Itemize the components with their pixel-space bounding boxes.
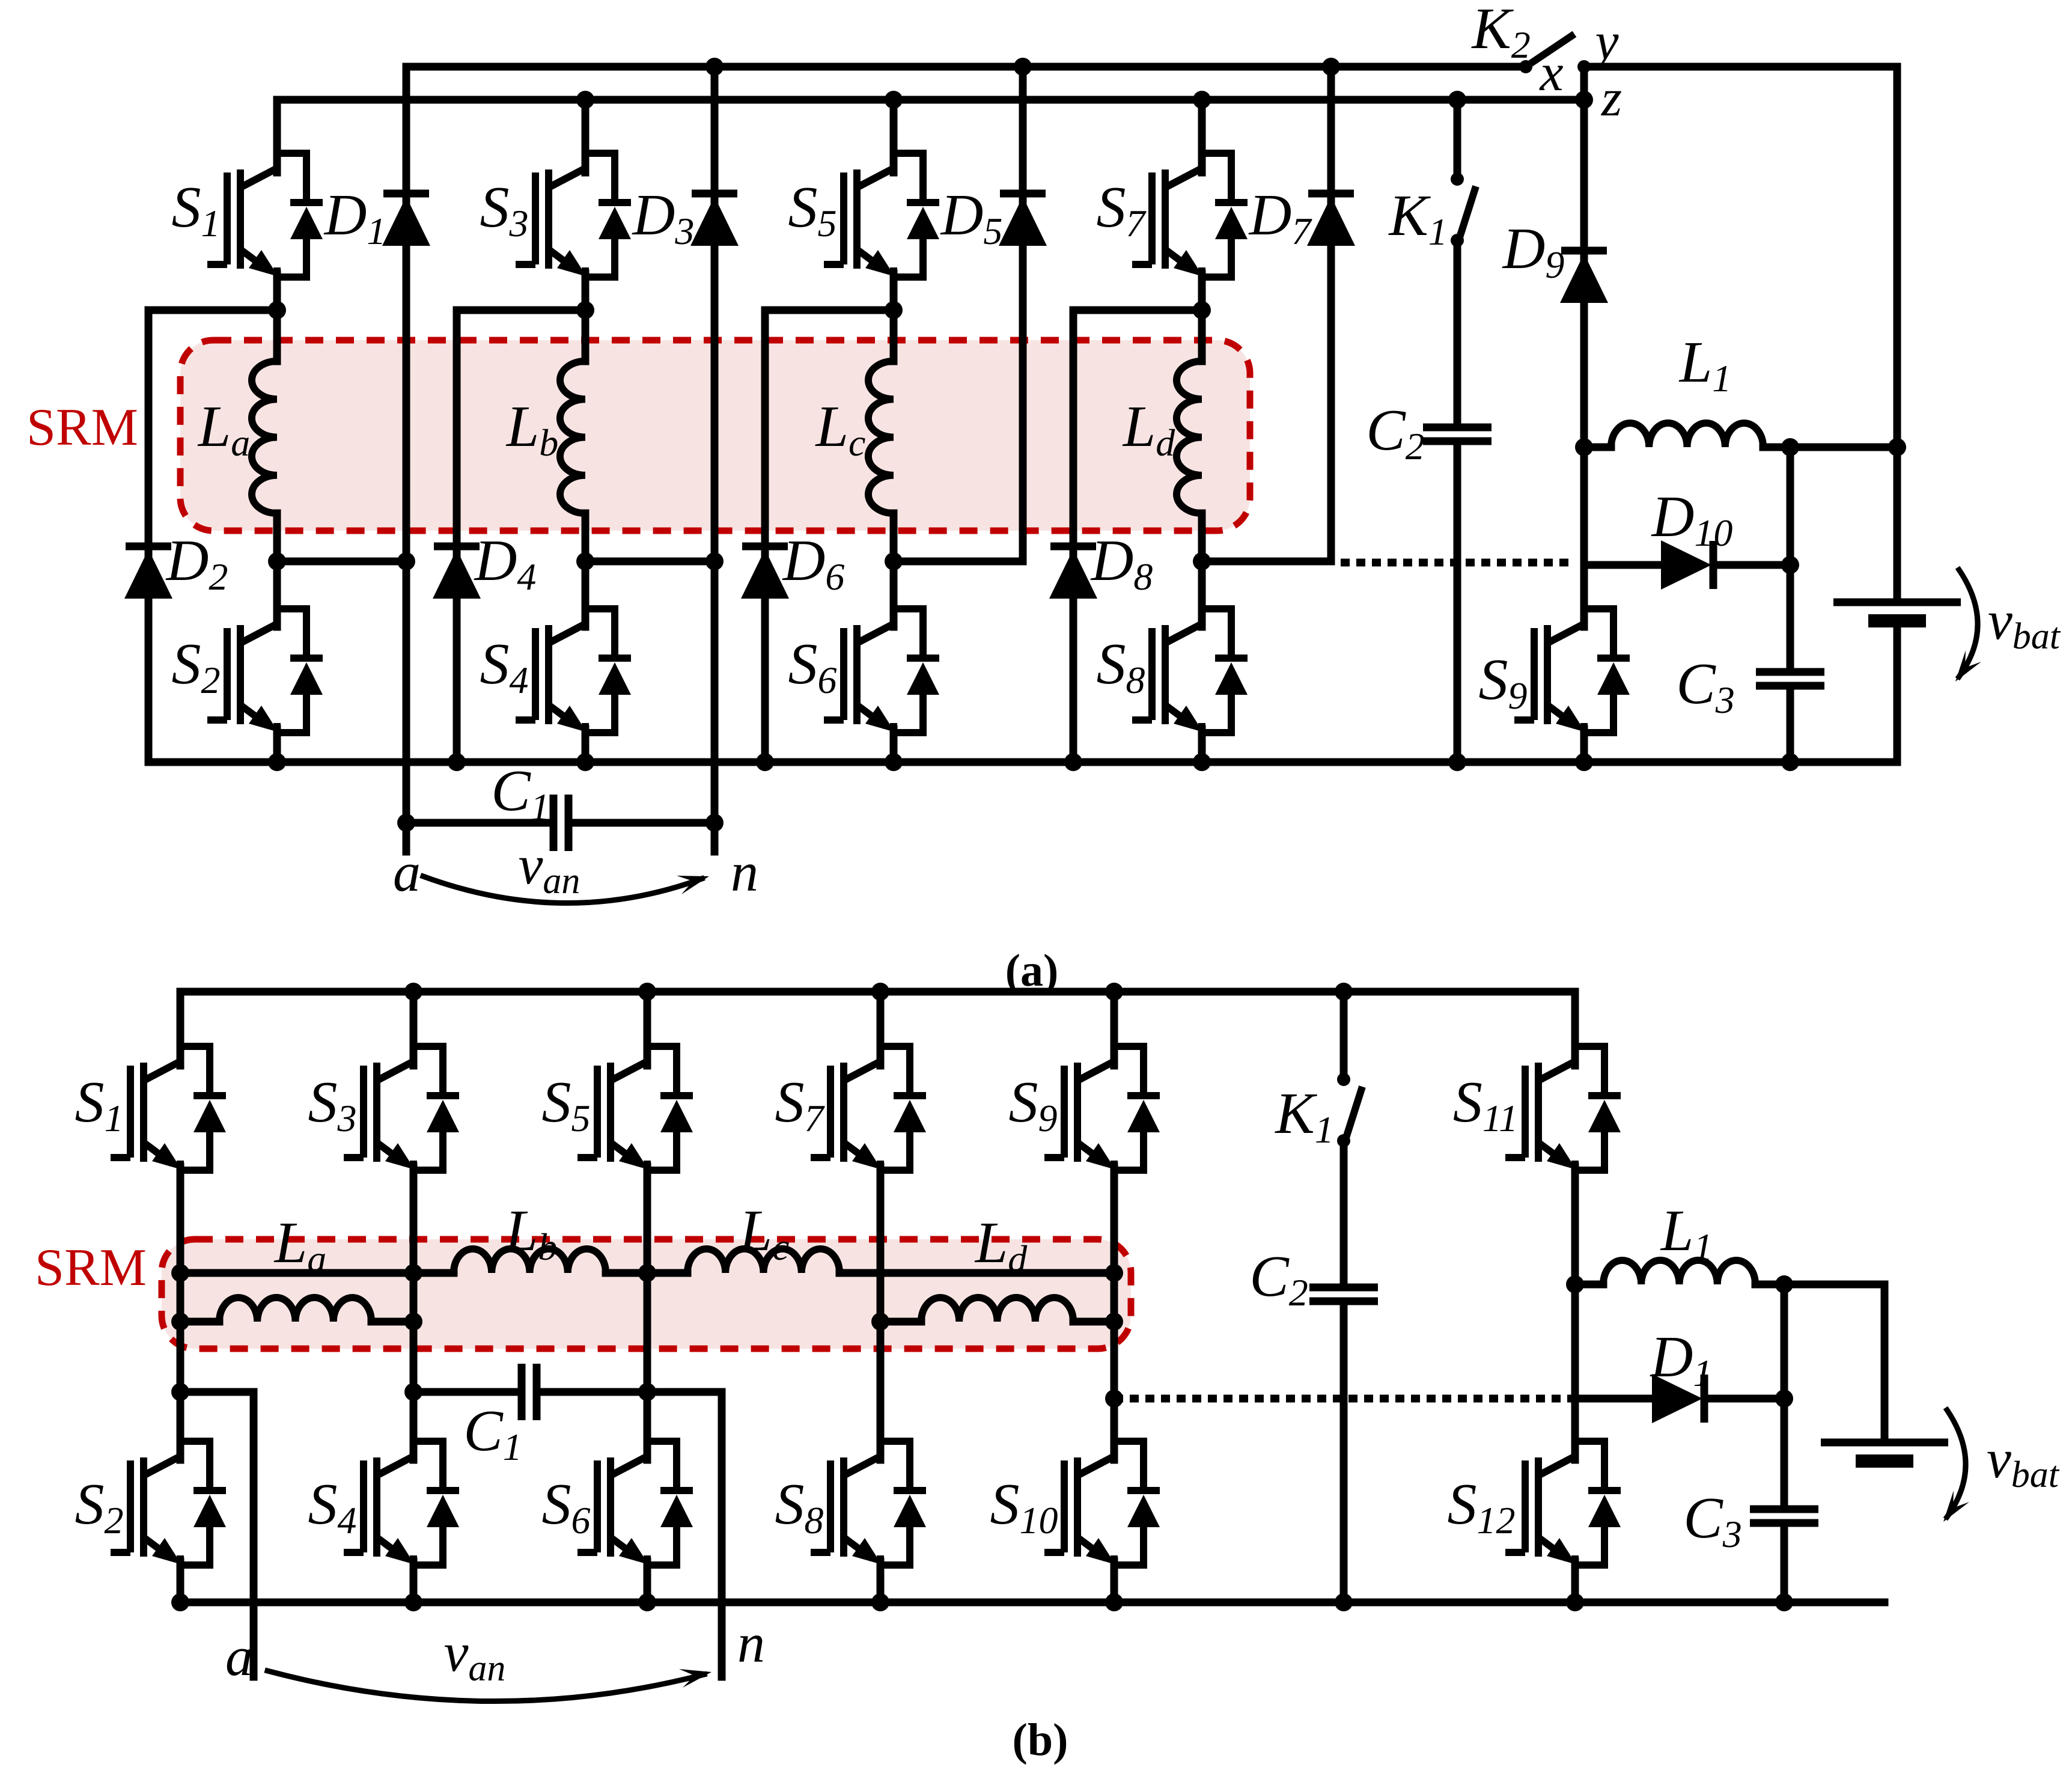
SRM machine dashed box (b) [162,1239,1131,1349]
junction leg on top rail (b) [638,983,656,1001]
SRM machine dashed box (a) [180,340,1250,531]
junction S6 emitter on bottom rail (b) [638,1593,656,1611]
wire node B to diode column phase d (a) [1202,558,1331,566]
junction diode column on outer rail (a) [705,58,724,76]
diode D7 (a) [1307,194,1355,246]
junction S8 emitter on bottom rail (b) [871,1593,889,1611]
transistor S5 IGBT (b) [577,1045,693,1172]
wire inner rail to K1 (a) [1454,100,1461,179]
inductor Lc winding (b) [687,1249,839,1273]
wire S4 emitter to bottom rail (a) [582,729,590,762]
junction S9 emitter on bottom rail (a) [1575,753,1593,771]
junction K1 column on inner rail (a) [1448,91,1466,109]
transistor S7 IGBT (b) [811,1045,926,1172]
node A junction phase b (a) [576,301,594,319]
node A junction phase d (a) [1193,301,1211,319]
junction diode column on outer rail (a) [1322,58,1340,76]
transistor S12 IGBT (b) [1505,1439,1621,1567]
wire S1 collector from top rail (b) [177,992,184,1066]
svg-text:(b): (b) [1013,1715,1068,1765]
wire K1 to C2 (a) [1454,240,1461,427]
wire phase a leg emitter to inductor (a) [273,273,281,361]
battery v_bat (a) [1833,602,1961,621]
inductor L1 (a) [1611,423,1763,447]
junction left branch on bottom rail phase d (a) [1064,753,1082,771]
wire inductor bottom to node B phase c (a) [890,513,898,627]
v_bat arrow arc (a) [1959,570,1978,677]
inductor La winding (a) [252,361,277,513]
wire inductor bottom to node B phase a (a) [273,513,281,627]
transistor S3 IGBT (b) [344,1045,459,1172]
wire D3 column down to node n (a) [711,67,719,852]
wire S11 collector from top rail (b) [1571,992,1579,1066]
wire node a to C1 (a) [406,819,553,827]
wire top rail to K1 (b) [1340,992,1348,1079]
node B junction phase c (a) [885,552,903,570]
wire S2 emitter to bottom rail (b) [177,1561,184,1602]
inductor Lb winding (b) [454,1249,606,1273]
diode D5 (a) [999,194,1047,246]
wire C3 column (b) [1781,1284,1788,1509]
wire outer top rail left section (a) [406,63,1526,71]
wire S3 collector from top rail (b) [410,992,418,1066]
node B junction phase a (a) [268,552,286,570]
capacitor C1 (b) [522,1364,537,1420]
switch K1 (b) [1337,1073,1362,1147]
node A junction phase a (a) [268,301,286,319]
junction C3 on bottom rail (b) [1775,1593,1793,1611]
wire phase c leg emitter to inductor (a) [890,273,898,361]
junction bottom bus at S7 leg (b) [871,1313,889,1331]
dashed wire S9 leg to S12 collector (b) [1114,1395,1571,1403]
wire D1 column down to node a (a) [403,67,410,852]
wire phase c leg collector (a) [890,100,898,172]
junction left branch on bottom rail phase b (a) [448,753,466,771]
wire K1 to C2 (b) [1340,1141,1348,1287]
junction S4 emitter on bottom rail (a) [576,753,594,771]
transistor S6 IGBT (b) [577,1439,693,1567]
junction bottom bus at S3 leg (b) [404,1313,422,1331]
wire S9 emitter through windings rows (b) [1111,1167,1118,1460]
switch K1 (a) [1451,172,1476,247]
junction S2 emitter on bottom rail (a) [268,753,286,771]
junction leg on top rail (b) [404,983,422,1001]
wire node B to diode column phase a (a) [277,558,406,566]
wire S4 emitter to bottom rail (b) [410,1561,418,1602]
v_an arrowhead (b) [679,1669,711,1688]
wire Ld coil to S9 leg (b) [1073,1318,1114,1326]
wire node A to left branch phase c (a) [765,307,894,314]
wire bottom rail (b) [180,1599,1885,1607]
junction D10 at C3 column (a) [1781,556,1799,574]
v_an arrowhead (a) [677,876,709,894]
wire C3 to bottom rail (b) [1781,1523,1788,1602]
junction L1 at right edge (a) [1888,438,1906,456]
wire phase d leg emitter to inductor (a) [1198,273,1206,361]
diode D3 (a) [690,194,739,246]
wire S7 emitter through windings rows (b) [877,1167,885,1460]
v_bat arrowhead (b) [1943,1491,1969,1522]
junction L1 tap on D9 column (a) [1575,438,1593,456]
junction S4 emitter on bottom rail (b) [404,1593,422,1611]
junction D1 at C3 column (b) [1775,1390,1793,1408]
junction diode column at node B row phase b (a) [705,552,724,570]
transistor S9 IGBT (a) [1514,607,1630,734]
transistor S1 IGBT (a) [207,151,323,279]
diode D8 (a) [1049,546,1097,599]
junction L1 at C3 column (a) [1781,438,1799,456]
junction S2 emitter on bottom rail (b) [171,1593,189,1611]
node B junction phase d (a) [1193,552,1211,570]
transistor S3 IGBT (a) [516,151,631,279]
junction dashed wire at S9 leg (b) [1105,1390,1123,1408]
node B junction phase b (a) [576,552,594,570]
wire node A to left branch phase a (a) [148,307,277,314]
wire top rail (b) [180,988,1575,996]
wire S2 emitter to bottom rail (a) [273,729,281,762]
svg-text:n: n [737,1613,765,1674]
wire S8 emitter to bottom rail (a) [1198,729,1206,762]
wire S6 emitter to bottom rail (b) [644,1561,651,1602]
wire v_an arc arrow (b) [267,1671,704,1701]
wire L1 right lead to right edge (b) [1755,1284,1885,1442]
junction leg on top rail (b) [1105,983,1123,1001]
wire L1 left lead (a) [1584,444,1611,451]
wire phase b leg emitter to inductor (a) [582,273,590,361]
node z junction (a) [1575,91,1593,109]
wire left branch with D6 phase c (a) [761,310,769,762]
junction leg on top rail (b) [871,983,889,1001]
wire winding top bus right (b) [839,1269,1114,1277]
wire S9 emitter to bottom rail (a) [1580,729,1588,762]
junction bottom bus at S9 leg (b) [1105,1313,1123,1331]
wire inductor bottom to node B phase d (a) [1198,513,1206,627]
capacitor C2 (a) [1423,427,1492,441]
junction L1 at C3 column (b) [1775,1275,1793,1293]
v_bat arrowhead (a) [1955,650,1981,682]
battery v_bat (b) [1821,1442,1948,1461]
wire L1 left lead (b) [1575,1281,1603,1289]
junction on winding top bus (b) [638,1264,656,1282]
junction C2 column on bottom rail (a) [1448,753,1466,771]
wire left branch with D8 phase d (a) [1070,310,1077,762]
inductor Lc winding (a) [868,361,894,513]
junction diode column at node B row phase a (a) [397,552,415,570]
transistor S2 IGBT (a) [207,607,323,734]
wire S9 collector from top rail (b) [1111,992,1118,1066]
diode D1 (b) [1652,1374,1704,1423]
wire winding top bus left (b) [180,1269,454,1277]
wire phase a leg collector (a) [273,100,281,172]
svg-text:n: n [731,841,758,903]
wire S3 emitter through windings rows (b) [410,1167,418,1460]
wire D5 column (a) [1019,67,1027,561]
wire inductor bottom to node B phase b (a) [582,513,590,627]
wire node a branch (b) [180,1388,254,1396]
junction C3 on bottom rail (a) [1781,753,1799,771]
transistor S6 IGBT (a) [824,607,939,734]
junction C1 wire at S3 leg (b) [404,1383,422,1401]
transistor S9 IGBT (b) [1044,1045,1160,1172]
wire S9 collector node to D10 (a) [1584,561,1662,569]
transistor S4 IGBT (b) [344,1439,459,1567]
wire S10 emitter to bottom rail (b) [1111,1561,1118,1602]
wire D1 cathode to C3 column (b) [1705,1395,1784,1403]
junction on winding top bus (b) [1105,1264,1123,1282]
transistor S4 IGBT (a) [516,607,631,734]
wire z to D9 to S9 collector (a) [1580,100,1588,627]
junction leg on inner rail (a) [576,91,594,109]
wire C2 to bottom rail (a) [1454,441,1461,762]
wire C3 column (a) [1787,447,1794,672]
junction C2 column on bottom rail (b) [1335,1593,1353,1611]
transistor S10 IGBT (b) [1044,1439,1160,1567]
capacitor C1 (a) [553,795,568,851]
junction S6 emitter on bottom rail (a) [885,753,903,771]
capacitor C2 (b) [1309,1287,1378,1301]
wire left branch with D4 phase b (a) [453,310,461,762]
wire S1 emitter through windings rows (b) [177,1167,184,1460]
wire S6 emitter to bottom rail (a) [890,729,898,762]
wire S12 collector node to D1 (b) [1575,1395,1653,1403]
inductor Ld winding (b) [921,1298,1073,1322]
junction leg on inner rail (a) [885,91,903,109]
svg-text:a: a [393,841,421,903]
wire D7 column (a) [1327,67,1335,561]
junction bottom bus at S1 leg (b) [171,1313,189,1331]
wire z-node drop from K2 (a) [1580,67,1588,100]
junction S10 emitter on bottom rail (b) [1105,1593,1123,1611]
junction leg on inner rail (a) [1193,91,1211,109]
inductor Ld winding (a) [1177,361,1202,513]
wire node B to diode column phase c (a) [894,558,1023,566]
wire node A to left branch phase b (a) [457,307,585,314]
junction S8 emitter on bottom rail (a) [1193,753,1211,771]
wire v_an arc arrow (a) [423,876,702,903]
capacitor C3 (b) [1750,1509,1818,1523]
diode D6 (a) [741,546,789,599]
K2 left contact (a) [1519,60,1532,73]
wire node B to diode column phase b (a) [585,558,715,566]
diode D2 (a) [124,546,172,599]
svg-text:SRM: SRM [35,1239,147,1297]
svg-text:z: z [1601,69,1622,127]
inductor Lb winding (a) [560,361,585,513]
inductor L1 (b) [1603,1260,1755,1284]
junction on winding top bus (b) [171,1264,189,1282]
dashed wire node B row to S9 (a) [1341,559,1571,567]
transistor S1 IGBT (b) [111,1045,226,1172]
wire S7 collector from top rail (b) [877,992,885,1066]
diode D10 (a) [1661,540,1713,590]
wire S8 emitter to bottom rail (b) [877,1561,885,1602]
wire C2 to bottom rail (b) [1340,1301,1348,1602]
svg-text:a: a [225,1626,253,1687]
diode D1 (a) [382,194,430,246]
junction node a wire at S1 leg (b) [171,1383,189,1401]
wire outer top rail right section and right edge (a) [1584,67,1897,602]
wire S11 emitter to L1 node and S12 (b) [1571,1167,1579,1460]
inductor La winding (b) [219,1298,371,1322]
wire right edge below battery (a) [1894,621,1901,762]
transistor S8 IGBT (b) [811,1439,926,1567]
svg-text:x: x [1538,44,1563,102]
transistor S2 IGBT (b) [111,1439,226,1567]
wire bottom rail (a) [148,758,1897,766]
junction on winding top bus (b) [404,1264,422,1282]
wire winding bottom bus right segment (b) [880,1318,921,1326]
wire C1 left section (b) [413,1388,522,1396]
transistor S11 IGBT (b) [1505,1045,1621,1172]
diode D9 (a) [1560,251,1608,303]
junction left branch on bottom rail phase c (a) [756,753,774,771]
wire S12 emitter to bottom rail (b) [1571,1561,1579,1602]
wire phase d leg collector (a) [1198,100,1206,172]
junction diode column on outer rail (a) [1014,58,1032,76]
junction node a on C1 wire (a) [397,814,415,832]
transistor S5 IGBT (a) [824,151,939,279]
junction S12 emitter on bottom rail (b) [1566,1593,1584,1611]
junction K1 column on top rail (b) [1335,983,1353,1001]
wire C1 right section to node n (b) [537,1392,722,1677]
wire node A to left branch phase d (a) [1073,307,1202,314]
wire D10 cathode to C3 column (a) [1714,561,1790,569]
wire node a stub down (b) [250,1392,258,1677]
transistor S7 IGBT (a) [1132,151,1248,279]
svg-text:SRM: SRM [26,398,138,457]
transistor S8 IGBT (a) [1132,607,1248,734]
wire S5 emitter through windings rows (b) [644,1167,651,1460]
svg-text:y: y [1590,13,1619,71]
wire L1 right lead to right edge (a) [1763,444,1897,451]
wire left branch with D2 phase a (a) [145,310,153,762]
wire phase b leg collector (a) [582,100,590,172]
v_bat arrow arc (b) [1947,1410,1966,1517]
wire winding bottom bus left segment (b) [180,1318,219,1326]
switch K2 blade (a) [1526,36,1571,67]
diode D4 (a) [433,546,481,599]
K2 right contact / node y (a) [1577,60,1591,73]
node A junction phase c (a) [885,301,903,319]
wire C1 to node n (a) [568,819,715,827]
wire C3 to bottom rail (a) [1787,686,1794,762]
junction node n on C1 wire (a) [705,814,724,832]
wire inner top rail (a) [277,96,1584,104]
wire S5 collector from top rail (b) [644,992,651,1066]
capacitor C3 (a) [1756,672,1824,686]
junction L1 tap at S11 leg (b) [1566,1275,1584,1293]
wire La coil to S3 leg (b) [371,1318,413,1326]
wire winding top bus middle (b) [606,1269,687,1277]
junction C1 wire at S5 leg (b) [638,1383,656,1401]
